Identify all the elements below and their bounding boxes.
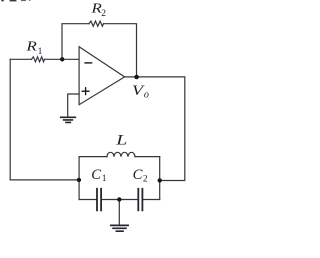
wire R1 to op-amp minus input [45,58,80,60]
wire tank top edge right [135,156,160,158]
node minus-input junction [60,57,64,61]
wire feedback left vertical [62,24,89,60]
ground op-amp plus input [61,117,76,122]
op-amp minus sign [85,62,92,64]
svg-text:C: C [133,167,144,183]
capacitor C2 plates [138,189,142,211]
svg-text:2: 2 [143,175,148,185]
svg-text:1: 1 [102,174,107,184]
svg-text:1: 1 [38,47,43,57]
wire tank right edge [159,157,161,200]
node tank left [77,178,81,182]
node tank right [158,178,162,182]
wire C1-C2 midpoint to ground [118,200,120,225]
resistor R2 [89,21,104,26]
node Vo output junction [134,75,139,80]
svg-text:C: C [91,167,102,183]
wire tank left edge [78,157,80,200]
capacitor C1 plates [97,189,101,211]
wire feedback right vertical [104,24,137,77]
wire tank bottom edge segments [79,199,160,201]
op-amp plus sign [82,88,89,95]
cropped text remnants at top edge [1,0,30,1]
wire output Vo [125,77,185,181]
wire tank top edge left [79,156,107,158]
inductor L [107,152,135,156]
resistor R1 [32,57,45,62]
wire plus input stub [68,94,79,116]
svg-text:R: R [25,39,37,54]
wire left rail [10,59,79,180]
svg-text:L: L [115,133,127,149]
wire R1 input [10,58,31,60]
svg-text:o: o [144,90,149,101]
node C1-C2 midpoint [117,197,121,201]
ground bottom [111,225,128,231]
node junction dots [60,57,162,202]
svg-text:2: 2 [101,9,106,19]
op-amp U1 [79,47,125,105]
